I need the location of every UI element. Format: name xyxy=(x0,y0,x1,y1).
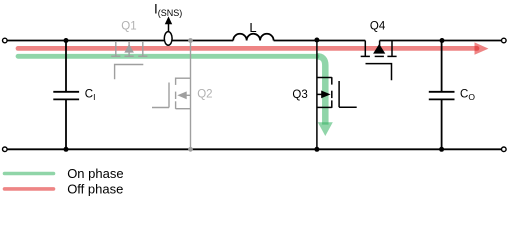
node: Q2 source junction (gray) xyxy=(188,147,193,152)
on-phase current path turn and down arrow (green) xyxy=(317,56,326,124)
svg-text:CO: CO xyxy=(460,89,475,102)
svg-text:Q2: Q2 xyxy=(197,88,212,100)
inductor L xyxy=(233,34,273,41)
transistor Q2 (inactive, gray) xyxy=(152,41,191,150)
svg-text:Q3: Q3 xyxy=(292,89,307,101)
svg-text:I(SNS): I(SNS) xyxy=(154,1,182,17)
input terminal bottom xyxy=(3,147,8,152)
top rail wire: Q4 body node to output terminal xyxy=(380,40,502,42)
capacitor CO xyxy=(429,41,455,150)
svg-text:L: L xyxy=(249,20,256,35)
input terminal top xyxy=(3,38,8,43)
top rail wire: input terminal to I(SNS) sensor xyxy=(7,40,164,42)
top rail wire: inductor to Q4 xyxy=(274,40,366,42)
on-phase current path (green band) xyxy=(18,54,317,59)
top rail wire: sensor to inductor xyxy=(172,40,233,42)
off-phase current path (red band with arrow) xyxy=(18,42,489,54)
capacitor CI xyxy=(53,41,79,150)
transistor Q4 xyxy=(361,41,397,81)
output terminal bottom xyxy=(502,147,507,152)
current sensor I(SNS) xyxy=(164,16,172,45)
svg-text:On phase: On phase xyxy=(67,166,123,181)
legend: off-phase swatch xyxy=(5,187,54,191)
svg-text:Off phase: Off phase xyxy=(67,181,123,196)
output terminal top xyxy=(502,38,507,43)
svg-text:Q4: Q4 xyxy=(370,21,386,33)
bottom rail wire xyxy=(7,148,501,150)
legend: on-phase swatch xyxy=(5,172,54,176)
node: CI top junction xyxy=(64,38,69,43)
node: CO top junction xyxy=(440,38,445,43)
svg-text:CI: CI xyxy=(85,89,96,102)
node: Q3 source junction xyxy=(314,147,319,152)
node: CO bottom junction xyxy=(439,147,444,152)
svg-text:Q1: Q1 xyxy=(121,20,136,32)
node: Q2 drain junction (gray) xyxy=(188,38,193,43)
transistor Q3 xyxy=(317,41,357,150)
node: CI bottom junction xyxy=(64,147,69,152)
node: Q3 drain junction xyxy=(314,38,319,43)
transistor Q1 (inactive, gray) xyxy=(111,41,147,79)
